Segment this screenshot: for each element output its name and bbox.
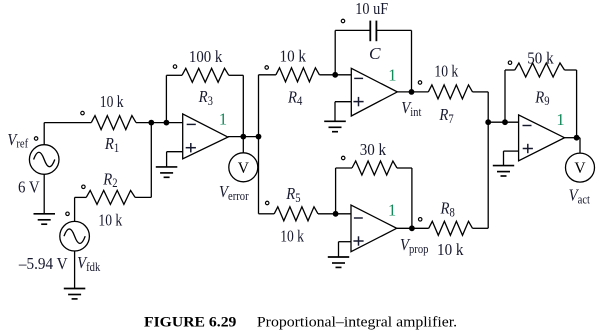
svg-text:R: R <box>534 88 544 106</box>
svg-text:R: R <box>198 88 208 106</box>
svg-text:R: R <box>287 88 297 106</box>
svg-text:R: R <box>285 185 295 203</box>
svg-text:R: R <box>102 170 112 188</box>
svg-text:10 uF: 10 uF <box>355 0 388 18</box>
svg-text:FIGURE 6.29: FIGURE 6.29 <box>144 314 236 330</box>
svg-text:3: 3 <box>208 94 213 108</box>
svg-text:6 V: 6 V <box>18 177 40 196</box>
svg-text:1: 1 <box>388 201 396 220</box>
svg-text:prop: prop <box>409 242 429 256</box>
svg-text:10 k: 10 k <box>434 62 458 81</box>
svg-text:Proportional–integral amplifie: Proportional–integral amplifier. <box>257 314 457 330</box>
svg-text:1: 1 <box>556 110 564 129</box>
svg-text:100 k: 100 k <box>189 47 223 66</box>
svg-text:V: V <box>574 160 586 177</box>
svg-text:1: 1 <box>388 65 396 84</box>
svg-text:R: R <box>104 135 114 153</box>
svg-text:error: error <box>228 189 249 203</box>
svg-text:8: 8 <box>450 206 455 220</box>
svg-text:30 k: 30 k <box>360 140 387 159</box>
svg-text:50 k: 50 k <box>527 48 554 67</box>
svg-text:–5.94 V: –5.94 V <box>18 254 68 273</box>
svg-text:10 k: 10 k <box>280 226 304 245</box>
svg-text:R: R <box>438 106 448 124</box>
svg-text:act: act <box>578 193 591 207</box>
svg-text:5: 5 <box>295 191 300 205</box>
svg-text:10 k: 10 k <box>98 211 122 230</box>
svg-text:R: R <box>440 200 450 218</box>
svg-text:1: 1 <box>219 110 227 129</box>
svg-text:fdk: fdk <box>86 260 100 274</box>
svg-text:4: 4 <box>297 94 302 108</box>
svg-text:2: 2 <box>112 176 117 190</box>
svg-text:1: 1 <box>114 141 119 155</box>
svg-text:9: 9 <box>544 94 549 108</box>
svg-text:int: int <box>410 105 422 119</box>
svg-text:V: V <box>238 160 250 177</box>
svg-text:10 k: 10 k <box>437 240 464 259</box>
svg-text:C: C <box>369 44 381 63</box>
svg-text:10 k: 10 k <box>280 47 307 66</box>
svg-text:ref: ref <box>16 137 28 151</box>
svg-text:10 k: 10 k <box>100 92 124 111</box>
svg-text:7: 7 <box>448 112 453 126</box>
